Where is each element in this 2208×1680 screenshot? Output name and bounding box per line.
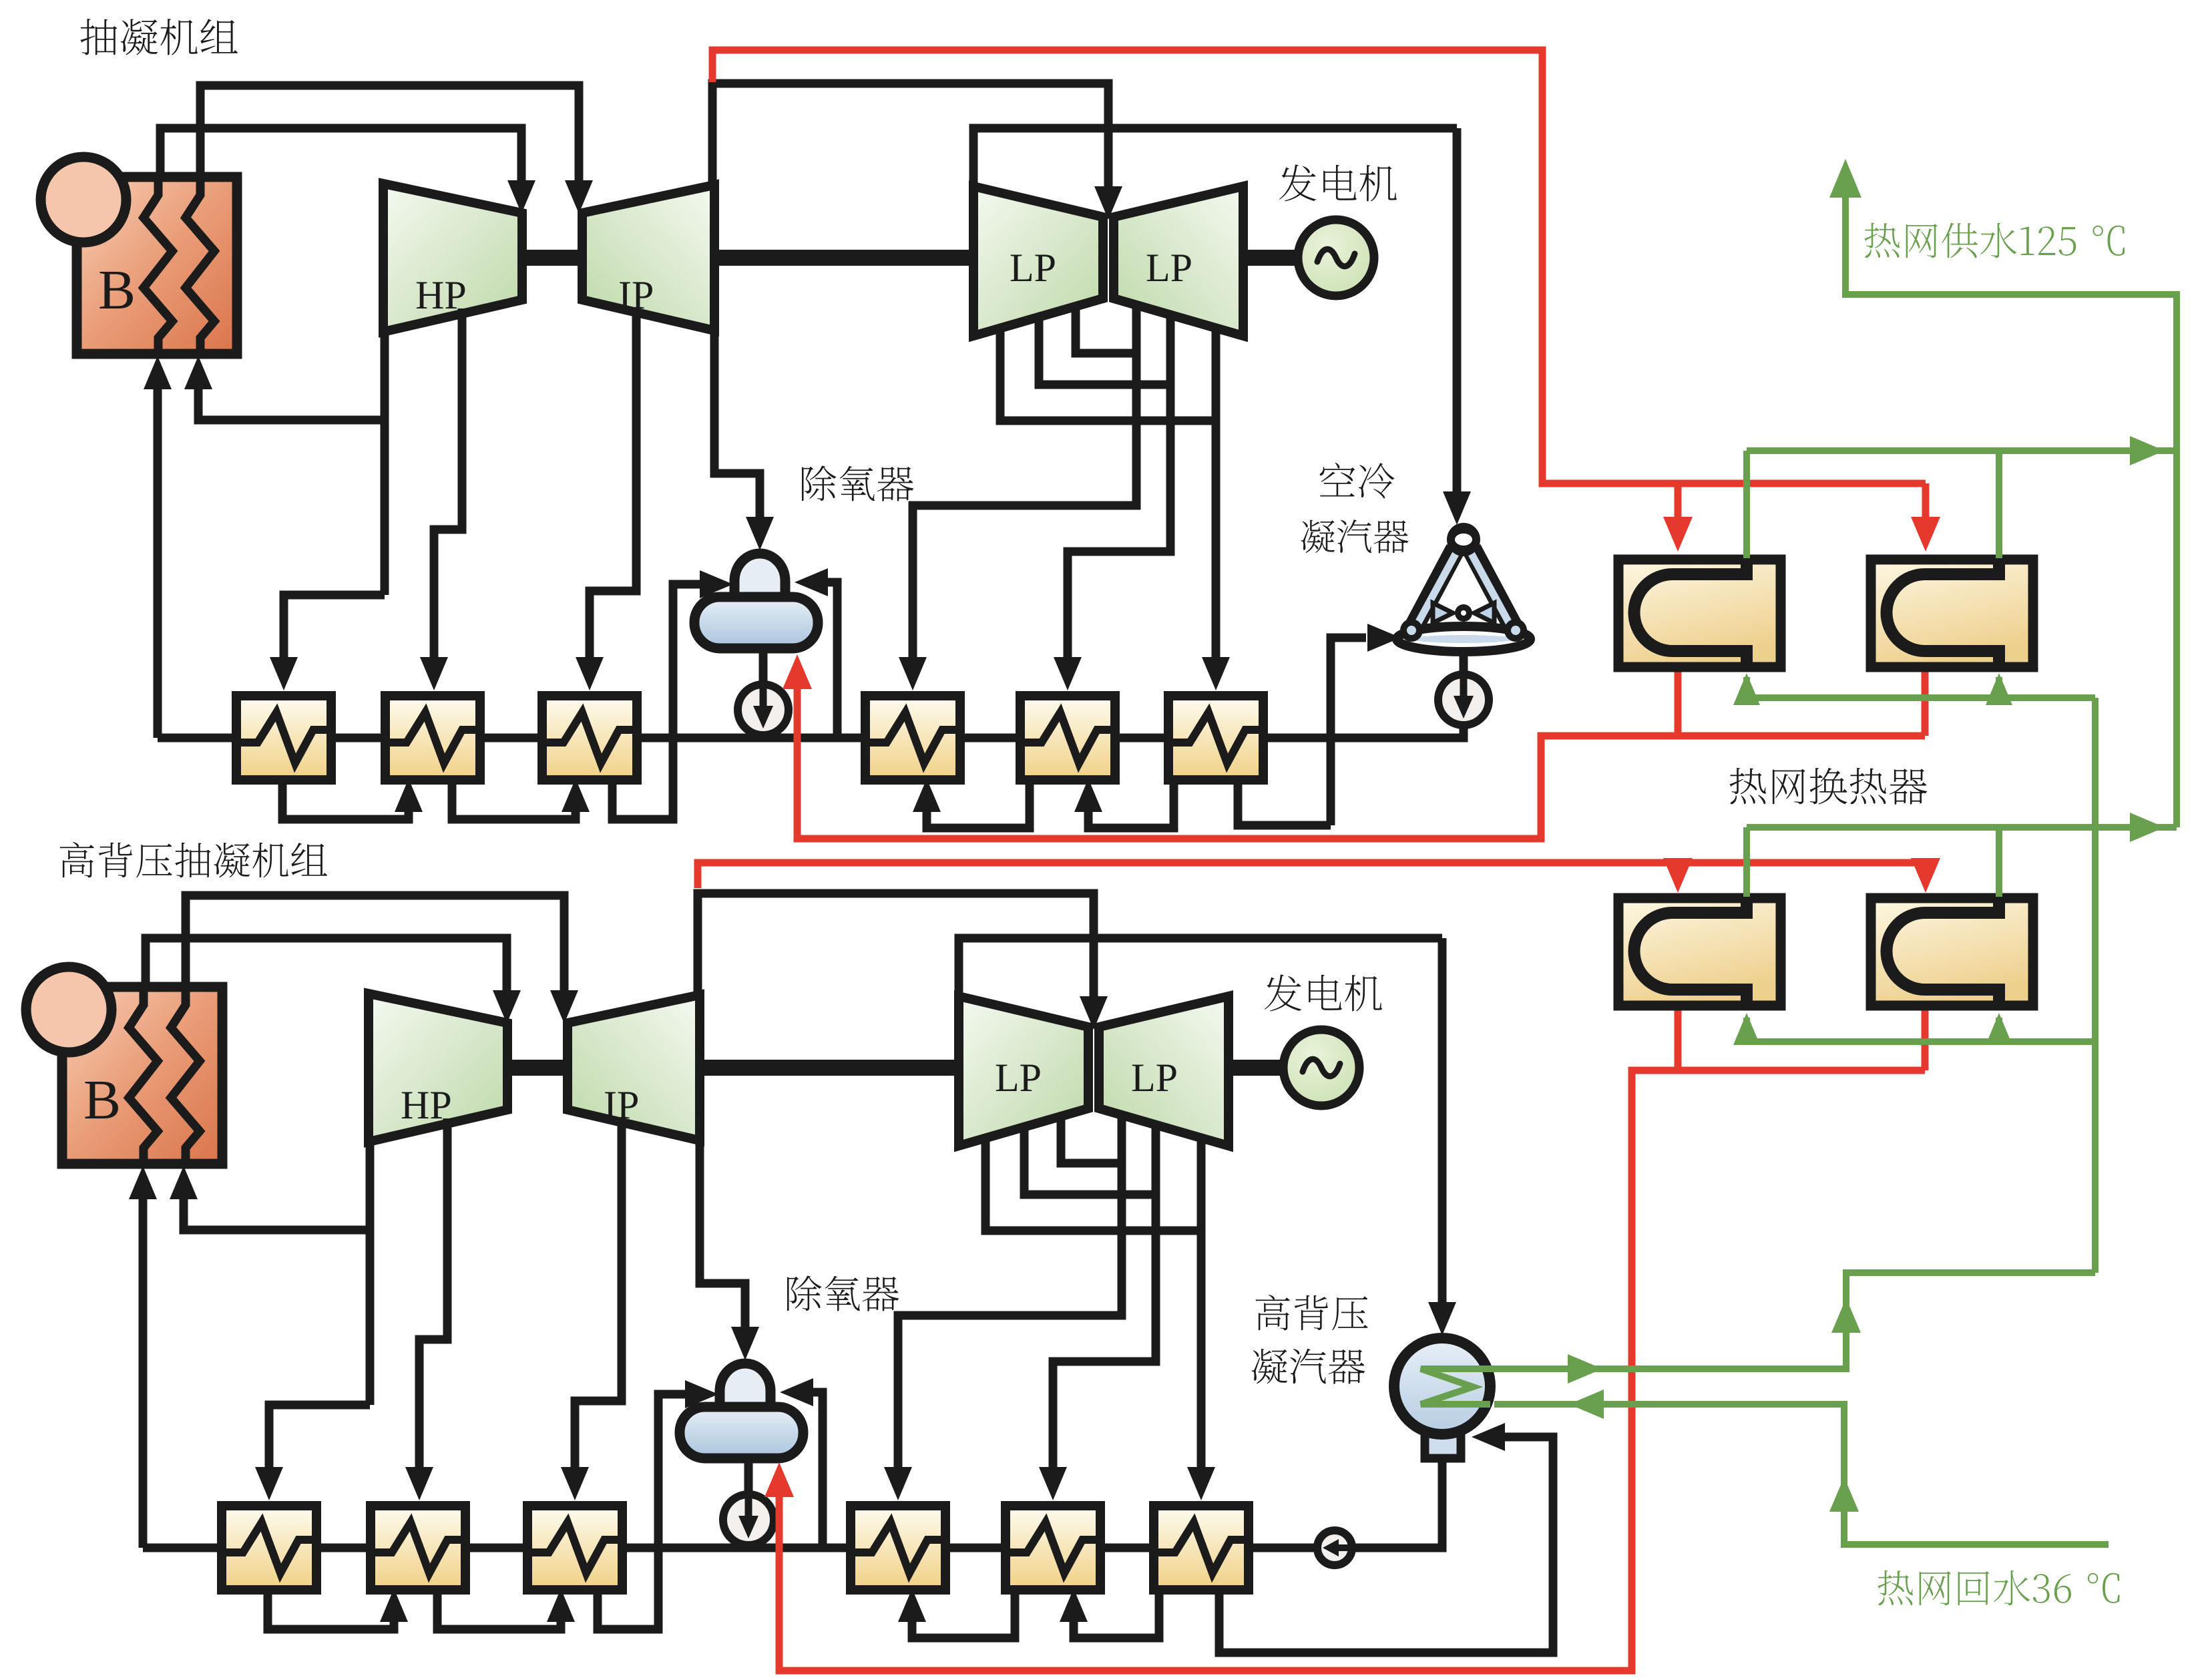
feedwater heater 6 (unit1) bbox=[1164, 696, 1268, 780]
air cooled condenser label 凝汽器 bbox=[1301, 519, 1335, 553]
heat network heater 1 (unit1) bbox=[1618, 560, 1781, 667]
green supply label 热网供水125 ℃ bbox=[1864, 223, 1900, 258]
svg-text:LP: LP bbox=[1131, 1056, 1178, 1100]
IP turbine (unit2) bbox=[568, 995, 700, 1140]
HP exhaust to boiler reheat (unit2) bbox=[170, 1140, 370, 1405]
feedwater heater 1 (unit1) bbox=[232, 696, 336, 780]
svg-text:B: B bbox=[83, 1069, 121, 1131]
red steam drop to heat exchanger 2 (unit1) bbox=[1922, 483, 1930, 522]
LP turbine right (unit2) bbox=[1099, 996, 1229, 1146]
heater 6 drain to condensate line (unit1) bbox=[1238, 738, 1331, 825]
green water from condenser to risers (unit2) bbox=[1490, 1273, 2095, 1369]
title label 高背压抽凝机组 (high back-pressure unit) bbox=[60, 842, 94, 878]
steam pipe LP to back pressure condenser (unit2) bbox=[1438, 938, 1447, 1306]
heat network heater 3 (unit2) bbox=[1618, 898, 1781, 1006]
svg-text:LP: LP bbox=[995, 1056, 1042, 1100]
svg-text:IP: IP bbox=[618, 273, 654, 317]
feedwater heater 4 (unit1) bbox=[861, 696, 965, 780]
feedwater heater 2 (unit1) bbox=[381, 696, 485, 780]
HP turbine (unit1) bbox=[383, 184, 522, 332]
air cooled condenser A-frame (unit1) bbox=[1397, 523, 1530, 652]
crossover pipe IP to LP (unit1) bbox=[712, 83, 1122, 220]
pump (unit2) bbox=[723, 1494, 774, 1545]
heater3 drain to deaerator (unit1) bbox=[612, 570, 733, 819]
green sigma coil inside condenser (unit2) bbox=[1421, 1369, 1490, 1404]
deaerator label 除氧器 (unit2) bbox=[787, 1276, 899, 1311]
feedwater riser to deaerator (unit1) bbox=[795, 568, 837, 738]
LP extraction to heater 5 (unit2) bbox=[1024, 1124, 1156, 1500]
extraction IP to heater 3 (unit1) bbox=[576, 312, 636, 690]
turbine shaft LP-generator (unit1) bbox=[1243, 250, 1300, 266]
extraction IP to heater 3 (unit2) bbox=[561, 1122, 622, 1500]
LP extraction to heater 6 (unit2) bbox=[985, 1136, 1215, 1500]
turbine shaft HP-IP (unit2) bbox=[507, 1060, 568, 1076]
condenser label 高背压 bbox=[1256, 1295, 1290, 1331]
LP turbine left (unit1) bbox=[973, 186, 1103, 336]
svg-text:B: B bbox=[98, 259, 136, 321]
heater6 drain to heater5 (unit2) bbox=[1060, 1587, 1159, 1638]
boiler B (unit2) (furnace with drum) bbox=[26, 967, 222, 1164]
feedwater line (unit1) bbox=[144, 356, 1263, 738]
heater1 drain to heater2 (unit2) bbox=[268, 1587, 408, 1629]
generator label 发电机 (unit1) bbox=[1279, 164, 1397, 201]
svg-text:LP: LP bbox=[1146, 246, 1192, 290]
LP casing pipe to condenser header (unit1) bbox=[973, 128, 1457, 188]
turbine shaft IP-LP (unit1) bbox=[714, 250, 973, 266]
feedwater heater 3 (unit1) bbox=[538, 696, 642, 780]
LP casing pipe to condenser header (unit2) bbox=[959, 938, 1442, 998]
steam pipe boiler to HP (unit1) bbox=[160, 128, 535, 214]
LP extraction to heater 5 (unit1) bbox=[1039, 314, 1170, 690]
feedwater heater 1 (unit2) bbox=[218, 1506, 321, 1590]
boiler B (unit1) (furnace with drum) bbox=[41, 157, 237, 354]
heater2 drain to heater3 (unit1) bbox=[452, 777, 590, 819]
red steam drop to heat exchanger 3 (unit2) bbox=[1675, 863, 1682, 865]
feedwater heater 4 (unit2) bbox=[847, 1506, 950, 1590]
feedwater heater 6 (unit2) bbox=[1150, 1506, 1253, 1590]
LP extraction to heater 6 (unit1) bbox=[1000, 327, 1230, 690]
heat exchanger group label 热网换热器 bbox=[1730, 768, 1766, 804]
condenser label 凝汽器 (unit2) bbox=[1252, 1349, 1287, 1384]
generator (unit2) bbox=[1283, 1030, 1359, 1106]
generator label 发电机 (unit2) bbox=[1265, 974, 1382, 1011]
deaerator outlet to pump (unit2) bbox=[744, 1458, 753, 1548]
heat network heater 2 (unit1) bbox=[1871, 560, 2033, 667]
extraction IP to deaerator (unit1) bbox=[714, 332, 774, 550]
LP extraction to heater 4 (unit1) bbox=[899, 304, 1136, 690]
heat network heater 4 (unit2) bbox=[1871, 898, 2033, 1006]
pump condensate (unit2) bbox=[1317, 1530, 1352, 1565]
feedwater riser to deaerator (unit2) bbox=[780, 1378, 823, 1548]
pump (unit1) bbox=[738, 684, 789, 735]
generator (unit1) bbox=[1298, 220, 1374, 296]
LP turbine right (unit1) bbox=[1114, 186, 1243, 336]
condensate pipe to feedwater (unit2) bbox=[1249, 1458, 1442, 1548]
feedwater heater 3 (unit2) bbox=[523, 1506, 627, 1590]
green return water into condenser (unit2) bbox=[1494, 1404, 2109, 1544]
extraction line to heater 1 (unit2) bbox=[255, 1405, 370, 1500]
green return water to HX bottoms (unit1) bbox=[1747, 677, 2095, 698]
extraction HP to heater 2 (unit2) bbox=[405, 1118, 447, 1500]
turbine shaft LP-generator (unit2) bbox=[1229, 1060, 1285, 1076]
turbine shaft IP-LP (unit2) bbox=[700, 1060, 959, 1076]
feedwater heater 5 (unit2) bbox=[1002, 1506, 1105, 1590]
LP exhaust pipe into condenser base (unit1) bbox=[1331, 638, 1366, 738]
steam pipe to air cooled condenser (unit1) bbox=[1453, 128, 1462, 495]
pump condensate (unit1) bbox=[1438, 674, 1489, 725]
red steam drop to heat exchanger 1 (unit1) bbox=[1675, 483, 1682, 522]
steam pipe boiler to HP (unit2) bbox=[146, 938, 521, 1024]
green return label 热网回水36 ℃ bbox=[1878, 1570, 1913, 1606]
extraction HP to heater 2 (unit1) bbox=[420, 308, 462, 690]
LP extraction to heater 4 (unit2) bbox=[884, 1114, 1122, 1500]
red extraction steam main (unit1) bbox=[712, 50, 1926, 483]
condenser hotwell inlet pipe (unit2) bbox=[1219, 1437, 1553, 1653]
deaerator vessel (unit1) bbox=[694, 554, 818, 648]
crossover pipe IP to LP (unit2) bbox=[698, 893, 1108, 1030]
extraction line to heater 1 (unit1) bbox=[270, 595, 385, 690]
red drain from heat exchangers (unit1) bbox=[797, 670, 1925, 839]
HP turbine (unit2) bbox=[369, 994, 507, 1142]
title label 抽凝机组 (extraction condensing unit) bbox=[80, 19, 117, 55]
green supply water from HX tops (unit1) bbox=[1747, 451, 2177, 558]
svg-text:LP: LP bbox=[1010, 246, 1056, 290]
air cooled condenser label 空冷 bbox=[1320, 463, 1355, 497]
heater3 drain to deaerator (unit2) bbox=[598, 1380, 718, 1629]
LP turbine left (unit2) bbox=[959, 996, 1088, 1146]
red extraction steam main (unit2) bbox=[698, 863, 1926, 888]
heater5 drain to heater4 (unit2) bbox=[898, 1587, 1015, 1638]
deaerator vessel (unit2) bbox=[680, 1363, 803, 1458]
heater5 drain to heater4 (unit1) bbox=[913, 777, 1030, 828]
green return water to HX bottoms (unit2) bbox=[1747, 1018, 2095, 1042]
feedwater heater 5 (unit1) bbox=[1016, 696, 1120, 780]
svg-text:IP: IP bbox=[604, 1083, 639, 1127]
feedwater heater 2 (unit2) bbox=[367, 1506, 470, 1590]
green supply water from HX tops (unit2) bbox=[1747, 827, 2177, 897]
HP exhaust to boiler reheat (unit1) bbox=[184, 331, 385, 595]
feedwater line (unit2) bbox=[129, 1166, 1249, 1548]
heater1 drain to heater2 (unit1) bbox=[282, 777, 423, 819]
extraction IP to deaerator (unit2) bbox=[700, 1142, 759, 1360]
turbine shaft HP-IP (unit1) bbox=[522, 250, 582, 266]
main steam pipe boiler to IP (unit2) bbox=[186, 895, 578, 1024]
heater2 drain to heater3 (unit2) bbox=[437, 1587, 575, 1629]
condensate pipe from condenser through pump (unit1) bbox=[1263, 652, 1464, 738]
deaerator outlet to pump (unit1) bbox=[759, 648, 768, 738]
green return riser bbox=[2092, 698, 2099, 1273]
main steam pipe boiler to IP (unit1) bbox=[200, 85, 593, 214]
high back pressure condenser (unit2) bbox=[1394, 1338, 1490, 1458]
red steam drop to heat exchanger 4 (unit2) bbox=[1922, 863, 1930, 865]
deaerator label 除氧器 (unit1) bbox=[802, 466, 913, 501]
IP turbine (unit1) bbox=[582, 185, 714, 331]
heater6 drain to heater5 (unit1) bbox=[1074, 777, 1174, 828]
red drain from heat exchangers (unit2) bbox=[779, 1009, 1925, 1671]
green supply riser and 125C outlet bbox=[1845, 195, 2177, 827]
